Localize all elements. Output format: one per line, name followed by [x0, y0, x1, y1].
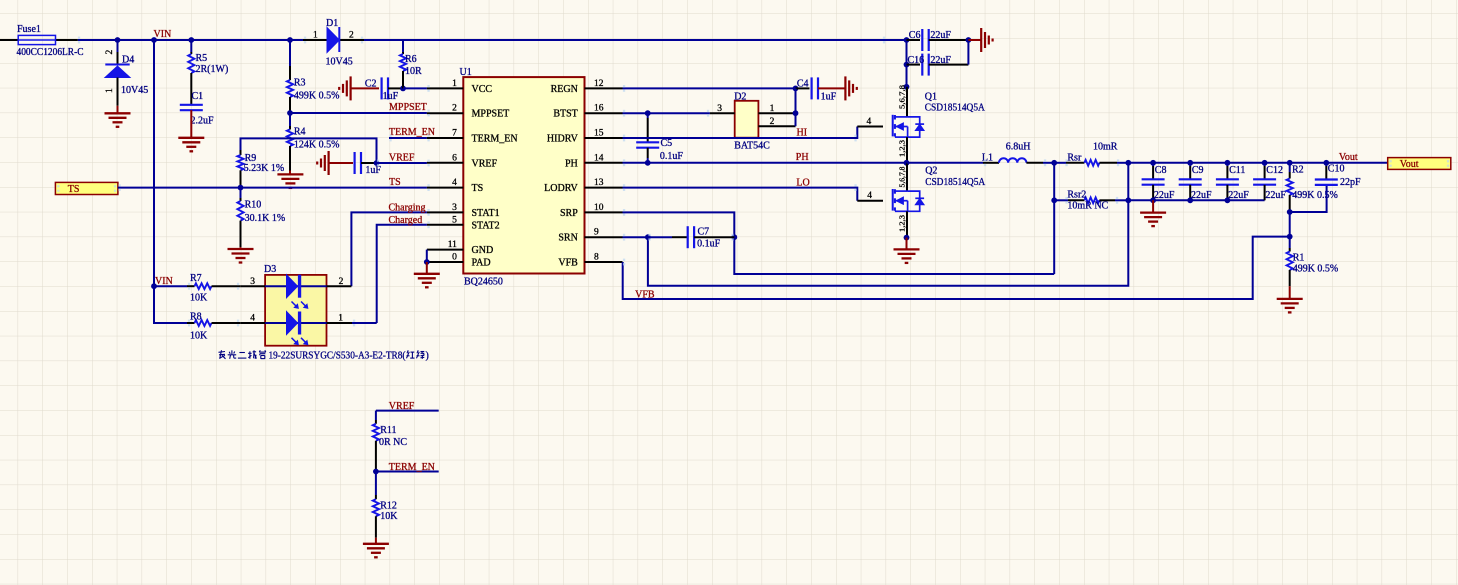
transistor Q2 CSD18514Q5A	[893, 163, 938, 238]
resistor R6	[400, 40, 417, 88]
svg-text:HIDRV: HIDRV	[547, 134, 579, 145]
svg-text:10mR NC: 10mR NC	[1067, 201, 1108, 212]
svg-text:BTST: BTST	[553, 109, 577, 120]
resistor R9	[237, 150, 256, 188]
capacitor C16	[907, 54, 969, 76]
svg-text:Q1: Q1	[925, 91, 937, 102]
svg-text:HI: HI	[797, 127, 808, 138]
junction SRP / C7	[731, 234, 737, 240]
svg-text:VREF: VREF	[389, 152, 415, 163]
wire TS net	[118, 187, 427, 189]
svg-text:1: 1	[770, 104, 775, 114]
U1 pin 1 VCC	[427, 79, 492, 95]
svg-text:C12: C12	[1266, 165, 1283, 176]
svg-text:499K 0.5%: 499K 0.5%	[1293, 263, 1339, 274]
wire SRN net	[623, 236, 648, 238]
svg-text:Charged: Charged	[389, 215, 423, 226]
svg-text:R2: R2	[1292, 164, 1304, 175]
svg-text:19-22SURSYGC/S530-A3-E2-TR8(: 19-22SURSYGC/S530-A3-E2-TR8(	[269, 350, 407, 361]
svg-text:22pF: 22pF	[1340, 177, 1361, 188]
svg-text:VCC: VCC	[472, 84, 493, 95]
D3 pin 2	[327, 277, 352, 287]
op-amp U1 BQ24650 (charger IC)	[460, 67, 585, 288]
svg-text:R11: R11	[380, 425, 396, 436]
wire BTST to D2 pin3	[648, 112, 710, 114]
U1 pin 15 HIDRV	[547, 129, 623, 145]
wire C10 bottom link	[1290, 185, 1327, 212]
svg-text:U1: U1	[460, 67, 472, 78]
svg-text:Vout: Vout	[1339, 152, 1358, 163]
svg-text:C6: C6	[909, 30, 921, 41]
svg-text:R10: R10	[245, 199, 262, 210]
svg-text:10: 10	[594, 203, 604, 213]
D2 pin 1	[758, 104, 795, 114]
svg-text:5,6,7,8: 5,6,7,8	[898, 85, 907, 109]
resistor R2	[1287, 163, 1304, 212]
resistor R12	[373, 472, 397, 538]
ground at R10	[228, 247, 254, 262]
wire VIN rail to R8	[154, 286, 187, 323]
junction C10 top	[1323, 160, 1329, 166]
svg-text:R3: R3	[294, 77, 306, 88]
svg-text:6: 6	[452, 153, 457, 163]
svg-text:16: 16	[594, 104, 604, 114]
svg-text:400CC1206LR-C: 400CC1206LR-C	[17, 47, 84, 58]
svg-text:Rsr2: Rsr2	[1067, 190, 1086, 201]
svg-text:REGN: REGN	[551, 84, 578, 95]
resistor R4	[287, 113, 306, 171]
wire VCC to pin1	[403, 87, 427, 89]
U1 pin 14 PH	[565, 153, 622, 169]
svg-text:6.8uH: 6.8uH	[1006, 142, 1031, 153]
wire SRP riser at Rsr2 left	[1053, 200, 1055, 274]
junction VIN / C6	[904, 37, 910, 43]
svg-text:5,6,7,8: 5,6,7,8	[898, 166, 907, 187]
svg-text:VREF: VREF	[472, 158, 498, 169]
U1 pin 11 GND	[427, 240, 493, 256]
wire VREF jog from R9 to C3 node	[241, 138, 377, 163]
resistor Rsr2	[1054, 190, 1128, 204]
svg-text:9: 9	[594, 228, 599, 238]
wire Vout rail	[1128, 162, 1387, 164]
ground at U1 GND/PAD	[414, 262, 440, 287]
junction D2 pin1	[793, 110, 799, 116]
svg-text:VFB: VFB	[635, 289, 655, 300]
capacitor C2	[365, 77, 403, 99]
D2 pin 2	[758, 117, 795, 127]
junction Rsr2 left	[1051, 197, 1057, 203]
junction BTST / C5	[645, 110, 651, 116]
diode D3 caption 19-22SURSYGC/S530-A3-E2-TR8	[219, 350, 429, 361]
U1 pin 0 PAD	[427, 253, 491, 269]
svg-text:5.23K 1%: 5.23K 1%	[244, 163, 285, 174]
svg-text:PH: PH	[565, 158, 578, 169]
capacitor C11	[1216, 163, 1246, 201]
svg-text:499K 0.5%: 499K 0.5%	[294, 90, 340, 101]
U1 pin 10 SRP	[560, 203, 622, 219]
svg-text:MPPSET: MPPSET	[389, 102, 427, 113]
wire TERM_EN stub (bottom)	[376, 471, 439, 473]
svg-text:2: 2	[770, 117, 775, 127]
wire Rsr right riser to Rsr2	[1127, 163, 1129, 201]
svg-text:GND: GND	[472, 245, 494, 256]
wire MPPSET	[290, 112, 427, 114]
D3 pin 4	[240, 314, 265, 324]
wire C16 right riser	[967, 40, 969, 65]
U1 pin 4 TS	[427, 178, 483, 194]
svg-text:D1: D1	[326, 18, 338, 29]
junction C8 top	[1150, 160, 1156, 166]
wire VREF stub (bottom)	[376, 410, 439, 412]
wire PH net	[623, 162, 907, 164]
svg-text:PAD: PAD	[472, 258, 491, 269]
svg-text:MPPSET: MPPSET	[472, 109, 510, 120]
svg-text:PH: PH	[796, 152, 809, 163]
junction MPPSET node	[287, 110, 293, 116]
junction VIN / R7	[151, 283, 157, 289]
svg-text:1uF: 1uF	[365, 165, 381, 176]
junction SRN / C7 left	[645, 234, 651, 240]
svg-text:8: 8	[594, 253, 599, 263]
U1 pin 6 VREF	[427, 153, 498, 169]
svg-text:15: 15	[594, 129, 604, 139]
wire LODRV / LO net	[623, 188, 858, 201]
wire VFB net	[623, 237, 1290, 299]
resistor R10	[237, 188, 261, 248]
junction R3 top	[287, 37, 293, 43]
ground at C6/C16 (rotated)	[968, 28, 992, 52]
diode D2 BAT54C	[734, 91, 758, 137]
svg-text:C11: C11	[1229, 165, 1245, 176]
junction L1 / Rsr / Rsr2 left	[1051, 160, 1057, 166]
svg-text:22uF: 22uF	[1154, 190, 1175, 201]
svg-text:1: 1	[338, 314, 343, 324]
wire GND/PAD to ground	[426, 250, 428, 262]
svg-text:C1: C1	[192, 91, 204, 102]
resistor Rsr	[1054, 153, 1128, 166]
junction Q1 drain node	[904, 84, 910, 90]
svg-text:Q2: Q2	[925, 165, 937, 176]
svg-text:CSD18514Q5A: CSD18514Q5A	[925, 177, 986, 188]
svg-text:1: 1	[452, 79, 457, 89]
svg-text:TS: TS	[68, 184, 80, 195]
wire VIN top rail	[78, 39, 907, 41]
U1 pin 5 STAT2	[427, 215, 500, 231]
svg-text:R5: R5	[196, 53, 208, 64]
capacitor C8	[1142, 163, 1167, 201]
svg-text:R12: R12	[380, 500, 397, 511]
svg-text:0: 0	[452, 253, 457, 263]
svg-text:CSD18514Q5A: CSD18514Q5A	[925, 103, 986, 114]
U1 pin 8 VFB	[558, 253, 622, 269]
junction R2 bottom / C10 bottom	[1287, 209, 1293, 215]
capacitor C7	[648, 226, 734, 248]
port TS	[55, 182, 118, 195]
svg-text:10K: 10K	[380, 511, 398, 522]
svg-text:10mR: 10mR	[1093, 142, 1118, 153]
svg-text:C7: C7	[698, 226, 710, 237]
wire BTST net	[623, 112, 648, 114]
junction C16 left	[904, 62, 910, 68]
junction VIN / D4	[115, 37, 121, 43]
junction Q2 source	[904, 235, 910, 241]
svg-text:11: 11	[448, 240, 457, 250]
inductor L1	[907, 153, 1055, 164]
resistor R1	[1287, 237, 1305, 287]
svg-text:R6: R6	[405, 54, 417, 65]
svg-text:SRN: SRN	[558, 233, 577, 244]
junction C9 bottom	[1187, 197, 1193, 203]
U1 pin 7 TERM_EN	[427, 129, 518, 145]
svg-text:2.2uF: 2.2uF	[191, 115, 215, 126]
resistor R5	[188, 40, 207, 105]
svg-text:0.1uF: 0.1uF	[697, 239, 721, 250]
wire TERM_EN stub to pin7	[389, 137, 427, 139]
junction VIN rail	[151, 37, 157, 43]
wire Rsr left riser to Rsr2	[1053, 163, 1055, 201]
capacitor C10	[1315, 163, 1345, 185]
wire C6-C16 left riser	[906, 40, 908, 87]
svg-text:R8: R8	[190, 311, 202, 322]
svg-text:4: 4	[250, 314, 255, 324]
svg-text:4: 4	[452, 178, 457, 188]
svg-text:3: 3	[717, 104, 722, 114]
ground at C4 (rotated)	[818, 76, 857, 100]
svg-text:22uF: 22uF	[930, 55, 951, 66]
capacitor C12	[1253, 163, 1283, 201]
U1 pin 12 REGN	[551, 79, 623, 95]
svg-text:2: 2	[339, 277, 344, 287]
junction TERM_EN / R11 / R12	[373, 469, 379, 475]
svg-text:22uF: 22uF	[930, 30, 951, 41]
junction Rsr right / Vout rail	[1125, 160, 1131, 166]
svg-text:LO: LO	[796, 177, 809, 188]
svg-text:TS: TS	[389, 177, 401, 188]
wire end connection marks	[57, 37, 1449, 327]
svg-text:C5: C5	[661, 138, 673, 149]
resistor R8	[187, 311, 240, 326]
svg-text:3: 3	[250, 277, 255, 287]
svg-text:499K 0.5%: 499K 0.5%	[1292, 190, 1338, 201]
svg-text:10V45: 10V45	[326, 56, 353, 67]
svg-text:TERM_EN: TERM_EN	[389, 462, 435, 473]
junction R6 / C2 / VCC	[400, 86, 406, 92]
U1 pin 13 LODRV	[544, 178, 622, 194]
svg-text:1uF: 1uF	[383, 91, 399, 102]
svg-text:4: 4	[867, 191, 872, 201]
diode D1 (10V45)	[303, 18, 364, 53]
svg-text:): )	[426, 350, 429, 361]
wire Charging net (STAT1 to D3 pin2)	[351, 212, 427, 286]
svg-text:C2: C2	[365, 79, 377, 90]
svg-text:0R NC: 0R NC	[379, 437, 407, 448]
svg-text:R1: R1	[1293, 253, 1305, 264]
diode D3 dual LED	[264, 264, 327, 346]
wire C4 node down to D2 pins	[795, 88, 797, 126]
junction C12 top	[1262, 160, 1268, 166]
junction REGN / C4	[793, 86, 799, 92]
svg-text:5: 5	[452, 215, 457, 225]
svg-text:Rsr: Rsr	[1067, 153, 1082, 164]
svg-text:Vout: Vout	[1400, 159, 1419, 170]
svg-text:C8: C8	[1155, 165, 1167, 176]
capacitor C6	[907, 29, 969, 51]
U1 pin 2 MPPSET	[427, 104, 509, 120]
capacitor C5	[636, 113, 672, 163]
svg-text:10R: 10R	[405, 66, 422, 77]
svg-text:1: 1	[105, 88, 115, 93]
ground at C2 (rotated)	[339, 76, 379, 100]
ground at R4	[277, 171, 303, 188]
svg-text:VFB: VFB	[558, 258, 578, 269]
svg-text:1,2,3: 1,2,3	[898, 140, 907, 157]
svg-text:14: 14	[594, 153, 604, 163]
svg-text:TS: TS	[472, 183, 484, 194]
wire output caps ground rail	[1128, 199, 1264, 201]
svg-text:SRP: SRP	[560, 208, 578, 219]
wire Charged net (STAT2 to D3 pin1)	[377, 225, 427, 323]
capacitor C9	[1179, 163, 1204, 201]
svg-text:13: 13	[594, 178, 604, 188]
capacitor C3	[355, 152, 377, 174]
U1 pin 3 STAT1	[427, 203, 500, 219]
svg-text:BQ24650: BQ24650	[464, 277, 503, 288]
junction PH / C5	[645, 160, 651, 166]
svg-text:C9: C9	[1192, 165, 1204, 176]
ground at output caps	[1140, 200, 1166, 226]
svg-text:TERM_EN: TERM_EN	[472, 134, 518, 145]
svg-text:R4: R4	[294, 126, 306, 137]
diode D4 (TVS 10V45)	[105, 40, 134, 106]
capacitor C1	[180, 91, 203, 110]
wire R2/R1 mid node	[1289, 212, 1291, 237]
svg-text:VREF: VREF	[389, 401, 415, 412]
junction C9 top	[1187, 160, 1193, 166]
capacitor C4	[796, 77, 819, 99]
transistor Q1 CSD18514Q5A	[893, 85, 937, 163]
svg-text:C4: C4	[797, 78, 809, 89]
svg-text:BAT54C: BAT54C	[734, 141, 770, 152]
svg-text:0.1uF: 0.1uF	[660, 151, 684, 162]
Q2 gate pin 4 wire	[857, 191, 883, 201]
svg-text:22uF: 22uF	[1228, 190, 1249, 201]
junction C6 right	[966, 37, 972, 43]
svg-text:10K: 10K	[190, 331, 208, 342]
svg-text:10V45: 10V45	[121, 85, 148, 96]
wire SRN rail to Rsr right node	[648, 200, 1128, 285]
svg-text:2: 2	[105, 50, 115, 55]
ground at Q2 source	[894, 238, 920, 263]
junction R5 top	[188, 37, 194, 43]
wire VIN vertical rail	[153, 40, 155, 286]
svg-text:1,2,3: 1,2,3	[898, 215, 907, 232]
svg-text:2: 2	[452, 104, 457, 114]
ground at C1	[178, 110, 204, 151]
junction R2 top	[1287, 160, 1293, 166]
junction VREF / C3	[374, 160, 380, 166]
svg-text:4: 4	[867, 117, 872, 127]
ground at D4	[105, 106, 131, 127]
svg-text:22uF: 22uF	[1191, 190, 1212, 201]
svg-text:Fuse1: Fuse1	[17, 24, 41, 35]
junction C11 bottom	[1225, 197, 1231, 203]
svg-text:30.1K 1%: 30.1K 1%	[245, 213, 286, 224]
svg-text:STAT2: STAT2	[472, 220, 500, 231]
junction C11 top	[1225, 160, 1231, 166]
svg-text:1uF: 1uF	[821, 91, 837, 102]
svg-text:10K: 10K	[190, 292, 208, 303]
junction TS / R9 / R10	[238, 185, 244, 191]
D3 pin 3	[240, 277, 265, 287]
svg-text:C10: C10	[1328, 164, 1345, 175]
svg-text:D4: D4	[122, 55, 134, 66]
D3 pin 1	[327, 314, 377, 324]
svg-text:1: 1	[313, 31, 318, 41]
resistor R7	[154, 273, 240, 289]
svg-text:R7: R7	[190, 273, 202, 284]
svg-text:D3: D3	[264, 264, 276, 275]
U1 pin 16 BTST	[553, 104, 622, 120]
ground at C3 (rotated)	[317, 151, 353, 175]
resistor R11	[373, 411, 397, 472]
port Vout	[1388, 158, 1451, 170]
svg-text:LODRV: LODRV	[544, 183, 578, 194]
Q1 gate pin 4 wire	[857, 117, 883, 127]
svg-text:2: 2	[349, 31, 354, 41]
wire REGN net	[623, 87, 796, 89]
junction Rsr2 right	[1125, 197, 1131, 203]
svg-text:D2: D2	[734, 91, 746, 102]
fuse Fuse1	[0, 24, 78, 45]
svg-text:C16: C16	[908, 55, 925, 66]
svg-text:STAT1: STAT1	[472, 208, 500, 219]
svg-text:Charging: Charging	[389, 202, 426, 213]
junction GND/PAD	[424, 259, 430, 265]
svg-text:12: 12	[594, 79, 604, 89]
svg-text:22uF: 22uF	[1265, 190, 1286, 201]
svg-text:L1: L1	[982, 153, 993, 164]
junction PH / Q1 source / Q2 drain	[904, 160, 910, 166]
U1 pin 9 SRN	[558, 228, 622, 244]
junction C8 bottom / ground	[1150, 197, 1156, 203]
wire VREF to pin6	[377, 162, 427, 164]
resistor R3	[287, 40, 306, 113]
svg-text:124K 0.5%: 124K 0.5%	[294, 140, 340, 151]
wire SRP net	[623, 212, 1055, 274]
ground at R12	[363, 538, 389, 558]
svg-text:7: 7	[452, 129, 457, 139]
wire HIDRV / HI net	[623, 127, 858, 139]
D2 pin 3	[710, 104, 735, 114]
svg-text:2R(1W): 2R(1W)	[196, 64, 229, 75]
junction VFB / R1 / R2	[1287, 234, 1293, 240]
svg-text:3: 3	[452, 203, 457, 213]
ground at R1	[1277, 286, 1303, 312]
